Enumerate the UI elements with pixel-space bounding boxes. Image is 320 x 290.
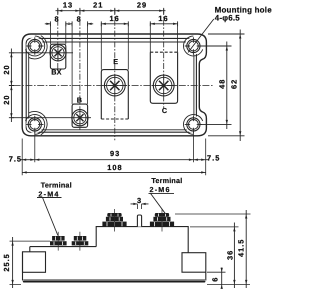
svg-text:B: B [77, 95, 82, 104]
mounting hole top-left [26, 37, 43, 54]
side platform top [30, 246, 96, 248]
svg-text:25.5: 25.5 [2, 253, 11, 271]
mounting hole top-right [185, 37, 202, 54]
extension lines pad C edges [150, 23, 177, 52]
terminal M6 bolt (C) side [150, 213, 174, 227]
svg-text:8: 8 [77, 15, 82, 24]
mounting hole bottom-right [185, 116, 202, 133]
extension lines pad B edges [72, 23, 88, 104]
svg-text:16: 16 [109, 14, 119, 23]
svg-text:E: E [113, 57, 118, 66]
terminal pad BX [50, 44, 65, 69]
svg-text:2-M6: 2-M6 [150, 185, 171, 194]
leader 2-M4 [37, 198, 62, 236]
centerline B horizontal [12, 117, 91, 119]
side right end block [182, 253, 206, 273]
svg-text:20: 20 [2, 94, 11, 104]
svg-text:29: 29 [137, 1, 147, 10]
svg-text:108: 108 [107, 163, 122, 172]
case outline top view [22, 34, 206, 136]
svg-text:Terminal: Terminal [151, 176, 182, 185]
svg-text:62: 62 [230, 79, 239, 89]
terminal M4 bolt (BX) side [50, 236, 67, 245]
centerline C vertical [163, 9, 165, 108]
side right face lower [205, 272, 207, 280]
dimension row widths 8 8 16 16 [45, 21, 178, 26]
terminal E bolt [103, 75, 128, 97]
terminal C bolt [151, 75, 176, 97]
svg-text:2-M4: 2-M4 [38, 189, 59, 198]
svg-text:48: 48 [218, 79, 227, 89]
svg-text:C: C [162, 106, 167, 115]
svg-text:7.5: 7.5 [207, 153, 220, 162]
dimension 25.5 [10, 241, 51, 284]
dimension 41.5 [175, 213, 251, 215]
svg-text:41.5: 41.5 [236, 239, 245, 257]
svg-text:BX: BX [51, 68, 61, 77]
centerline BX horizontal [12, 52, 73, 54]
centerline E vertical [114, 9, 116, 140]
lid arc around bottom-right hole [184, 115, 203, 135]
terminal M6 bolt (E) side [102, 213, 126, 227]
dimension left 20 20 [9, 49, 14, 123]
svg-text:3: 3 [137, 196, 142, 205]
centerline horizontal main [14, 85, 215, 87]
terminal pad E [101, 70, 128, 119]
svg-text:6: 6 [210, 277, 219, 282]
dimension right 62 [208, 30, 245, 142]
lid cutout masks at mounting holes [26, 37, 202, 133]
lid rim inner [29, 42, 194, 130]
svg-text:16: 16 [158, 14, 168, 23]
svg-text:20: 20 [2, 64, 11, 74]
dimension 7.5 left [21, 159, 35, 161]
dimension 3 (fin) [137, 204, 141, 209]
lid arc around top-right hole [184, 36, 203, 56]
terminal M4 bolt (B) side [72, 236, 89, 245]
lid rim outer [26, 38, 196, 132]
lid arc around top-left hole [26, 36, 45, 56]
dimension 93 [35, 159, 194, 161]
terminal BX bolt [50, 44, 66, 62]
dimension 108 [22, 171, 206, 173]
svg-text:13: 13 [63, 1, 73, 10]
mounting hole bottom-left [26, 116, 43, 133]
side baseplate [23, 279, 205, 281]
svg-text:7.5: 7.5 [9, 154, 22, 163]
lid arc around bottom-left hole [26, 115, 45, 135]
dimension 36 [190, 226, 239, 228]
centerline BX vertical [57, 9, 59, 70]
barrier fin side [137, 215, 141, 227]
extension lines bottom of top view [22, 132, 206, 176]
dimension 7.5 right [193, 159, 208, 161]
dimension right 48 [201, 42, 232, 130]
extension lines pad BX edges [50, 23, 65, 44]
side left end block [23, 252, 46, 272]
svg-text:Terminal: Terminal [41, 180, 72, 189]
centerline B vertical [79, 9, 81, 130]
extension lines pad E edges [101, 23, 128, 69]
dimension row pitch 13 21 29 [56, 8, 166, 14]
side case left face and end step [23, 247, 30, 281]
svg-text:4-φ6.5: 4-φ6.5 [215, 14, 241, 23]
terminal pad C [150, 52, 177, 103]
side raised lid [96, 227, 188, 253]
terminal B bolt [72, 109, 88, 127]
terminal pad B [72, 104, 88, 127]
svg-text:93: 93 [110, 149, 120, 158]
leader mounting hole [188, 19, 214, 53]
leader 2-M6 [149, 193, 175, 213]
svg-text:8: 8 [54, 15, 59, 24]
svg-text:21: 21 [93, 1, 103, 10]
dimension 6 [207, 272, 250, 284]
svg-text:36: 36 [226, 250, 235, 260]
